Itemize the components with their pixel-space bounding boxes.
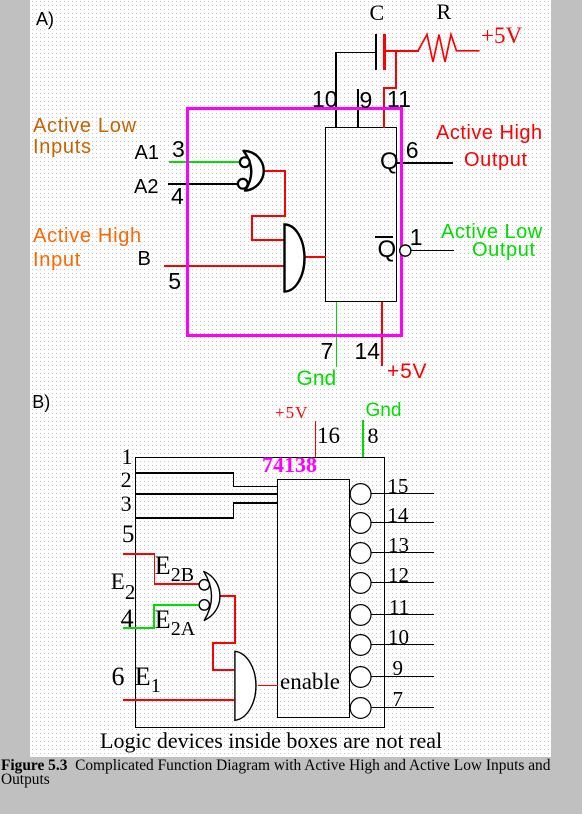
decoder output bubble pin7 — [350, 698, 371, 719]
wire: pin13 output — [371, 552, 434, 553]
label 74138 (magenta serif bold) — [262, 454, 317, 476]
pin label 9 — [393, 658, 404, 679]
label Gnd (green) — [297, 368, 337, 389]
label A2 — [134, 177, 158, 197]
pin label 6 (B) — [112, 664, 125, 690]
label Active High Input line2 — [33, 250, 81, 270]
wire: pin11 output — [371, 614, 434, 615]
wire: pin2 step vertical — [233, 472, 235, 487]
pin label 7 — [321, 340, 334, 363]
wire: E2B into G3 (red) — [154, 583, 199, 585]
pin label 10 — [388, 627, 409, 648]
wire: pin9 output — [371, 676, 434, 677]
wire: pin 14 to +5V (red) — [381, 302, 383, 367]
resistor R — [418, 35, 480, 63]
G3 input bubble E2B — [199, 580, 209, 590]
wire: output Q pin6 — [397, 162, 454, 164]
wire: lower step into IC — [233, 502, 278, 504]
pin label 4 (B) — [121, 606, 134, 632]
wire: pin6 E1 horizontal (red) — [123, 699, 235, 701]
G1 input bubble pin3 — [240, 157, 250, 167]
wire: pin4 vertical (green) — [153, 604, 155, 628]
label B — [138, 249, 151, 269]
label A1 — [135, 143, 159, 163]
wire: G4 output enable (red) — [258, 685, 278, 687]
pin label 8 — [368, 425, 379, 447]
wire: G3 jog into G4 (red) — [212, 669, 234, 671]
wire: input A1 pin3 (green) — [169, 161, 240, 163]
G1 input bubble pin4 — [238, 179, 248, 189]
label C — [370, 2, 385, 24]
wire: G3 jog vertical x212 (red) — [212, 642, 214, 671]
decoder output bubble pin14 — [350, 513, 371, 534]
wire: jog horizontal y216 — [251, 215, 286, 217]
decoder output bubble pin15 — [350, 484, 371, 505]
wire: lower stepped wire horizontal — [135, 517, 234, 519]
label E2B — [155, 553, 194, 579]
pin label 1 — [410, 226, 423, 249]
decoder output bubble pin10 — [350, 635, 371, 656]
note text — [100, 730, 442, 752]
IC body U1 (inner rectangle) — [325, 127, 397, 302]
pin label 7 — [393, 689, 404, 710]
pin label 11 — [389, 597, 409, 618]
label +5V (top, serif red) — [481, 24, 522, 47]
decoder output bubble pin13 — [350, 543, 371, 564]
label Active High Output (red) line2 — [464, 150, 528, 170]
wire: G3 jog vertical x235 (red) — [234, 595, 236, 643]
label Gnd (green) — [366, 401, 402, 420]
pin label 16 — [317, 424, 340, 447]
label +5V (bottom, sans red) — [387, 361, 427, 382]
wire: pin15 output — [371, 493, 434, 494]
and-gate G2 body — [285, 225, 305, 292]
label Active Low Output (green) line2 — [472, 240, 536, 260]
section label B) — [32, 393, 50, 411]
wire: output Qbar pin1 — [411, 250, 454, 252]
wire: AND1 output to U1 (red) — [304, 256, 326, 258]
function box (outer rectangle) — [135, 457, 385, 728]
pin label 3 — [172, 138, 185, 161]
pin label 11 — [387, 88, 411, 111]
figure caption — [1, 759, 559, 788]
label Qbar overline — [375, 236, 393, 238]
pin label 14 — [355, 340, 381, 363]
wire: pin10 output — [371, 644, 434, 645]
wire: pin3 horizontal — [135, 493, 278, 495]
pin label 5 — [168, 270, 181, 293]
wire: pin7 output — [371, 707, 434, 708]
wire: jog horizontal into AND1 y240 — [251, 239, 285, 241]
wire: Gnd to pin8 (green) — [362, 420, 364, 457]
wire: pin5 horizontal (red) — [123, 553, 156, 555]
label E1 — [135, 664, 161, 690]
pin label 9 — [360, 89, 373, 112]
wire: pin 11 vertical (red) — [383, 87, 385, 128]
wire: G3 jog horizontal y642 (red) — [212, 642, 236, 644]
boundary box (magenta) — [186, 107, 403, 337]
wire: pin4 horizontal (green) — [123, 627, 155, 629]
Qbar output bubble — [400, 245, 411, 256]
pin label 2 (B) — [121, 469, 132, 491]
label Active Low Output (green) line1 — [441, 222, 543, 242]
pin label 10 — [312, 88, 338, 111]
label R — [437, 1, 452, 23]
capacitor C left plate — [375, 34, 377, 70]
wire: jog vertical x252 — [251, 215, 253, 241]
label enable — [280, 670, 340, 693]
wire: E2A into G3 (green) — [153, 604, 198, 606]
wire: OR1 output to jog (red) — [263, 170, 286, 172]
pin label 1 (B) — [122, 446, 133, 468]
G3 input bubble E2A — [199, 600, 209, 610]
wire: cap right plate to resistor (red) — [385, 50, 419, 52]
wire: lower step vertical — [233, 502, 235, 519]
IC body 74138 (inner rectangle) — [277, 479, 350, 719]
wire: pin 9 stub — [357, 89, 359, 128]
label Active Low Inputs — [33, 116, 137, 157]
wire: pin 7 to Gnd (green) — [336, 302, 338, 367]
wire: +5V to pin16 (red) — [315, 421, 317, 457]
label Q — [380, 150, 399, 174]
pin label 5 (B) — [122, 522, 135, 547]
label E2 — [111, 570, 136, 593]
wire: cap C left plate to pin 10 horizontal — [336, 52, 376, 54]
wire: pin5 vertical (red) — [154, 553, 156, 585]
label Active High Output (red) line1 — [436, 123, 543, 143]
wire: input B pin5 (red) — [164, 265, 285, 267]
pin label 3 (B) — [121, 493, 132, 515]
wire: input A2 pin4 — [168, 183, 238, 185]
wire: pin14 output — [371, 522, 434, 523]
pin label 15 — [387, 476, 408, 497]
wire: G3 output (red) — [220, 595, 236, 597]
pin label 12 — [388, 565, 409, 586]
and-gate G4 body — [235, 651, 256, 720]
wire: red jog horizontal y88 — [383, 87, 396, 89]
wire: pin2 into IC — [233, 486, 278, 488]
label E2A — [155, 607, 195, 633]
label Qbar — [378, 238, 397, 262]
decoder output bubble pin11 — [350, 605, 371, 626]
label Active High Input — [33, 226, 142, 246]
capacitor C right plate (red net) — [383, 34, 385, 70]
pin label 4 — [171, 185, 184, 208]
wire: pin12 output — [371, 582, 434, 583]
pin label 6 — [406, 139, 419, 162]
pin label 13 — [388, 535, 409, 556]
decoder output bubble pin9 — [350, 667, 371, 688]
or-gate G1 (negative-input OR) body — [244, 151, 264, 191]
wire: red jog vertical at x396 — [395, 50, 397, 89]
wire: pin 10 vertical — [335, 52, 337, 128]
pin label 14 — [387, 505, 408, 526]
wire: pin2 horizontal — [135, 472, 234, 474]
decoder output bubble pin12 — [350, 573, 371, 594]
or-gate G3 (part B negative-input OR) body — [204, 572, 220, 621]
section label A) — [36, 10, 54, 28]
wire: jog vertical x285 — [284, 170, 286, 217]
label +5 V (red serif) — [275, 404, 308, 421]
